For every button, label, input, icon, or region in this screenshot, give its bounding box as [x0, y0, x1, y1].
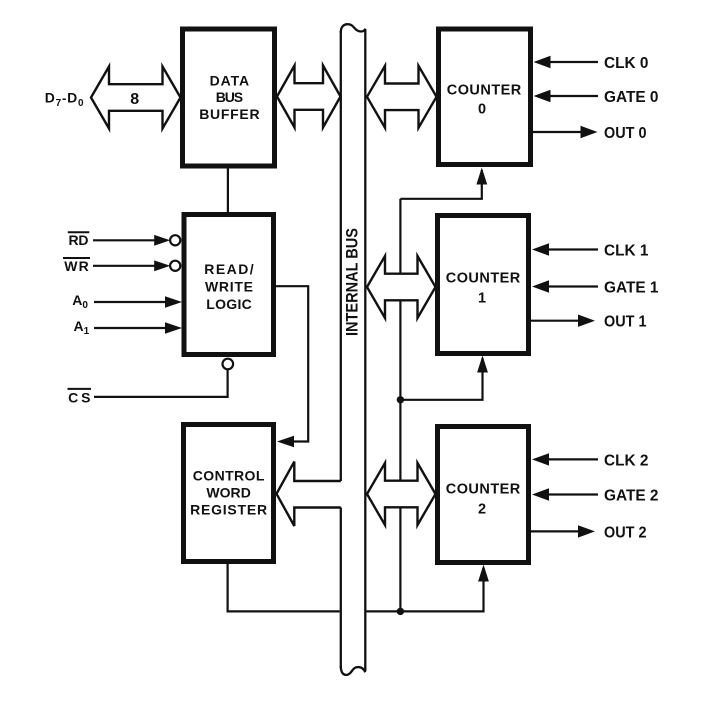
- block: COUNTER 0: [439, 29, 531, 165]
- svg-text:COUNTER: COUNTER: [446, 270, 521, 286]
- svg-text:D7-D0: D7-D0: [45, 90, 85, 109]
- wire: GATE 1 input line: [546, 285, 598, 287]
- svg-text:BUS: BUS: [216, 89, 243, 105]
- arrowhead: A0 into box: [165, 296, 182, 308]
- wire: branch to counter 0: [400, 170, 481, 199]
- arrowhead: GATE 0: [534, 90, 551, 102]
- wire: WR input line: [93, 265, 156, 267]
- arrowhead: WR into bubble: [154, 260, 170, 271]
- block: CONTROL WORD REGISTER: [184, 425, 274, 562]
- block: DATA BUS BUFFER: [183, 29, 275, 166]
- svg-text:0: 0: [478, 102, 486, 118]
- wire: CLK 0 input line: [548, 61, 598, 63]
- arrowhead: riser into counter 2 bottom: [478, 565, 489, 582]
- svg-text:DATA: DATA: [210, 73, 250, 89]
- arrowhead: OUT 1: [578, 315, 595, 327]
- arrowhead: R/W logic wire into control word register: [277, 436, 294, 448]
- svg-text:CLK 0: CLK 0: [604, 55, 648, 72]
- bubble: WR active-low input: [170, 261, 180, 271]
- svg-text:COUNTER: COUNTER: [446, 482, 521, 498]
- label: INTERNAL BUS (rotated): [343, 228, 362, 336]
- internal bus wavy bottom end: [341, 666, 366, 675]
- arrowhead: CLK 0: [534, 56, 551, 68]
- svg-text:CS: CS: [68, 389, 90, 405]
- wire: OUT 1 output line: [529, 320, 581, 322]
- svg-text:RD: RD: [69, 232, 89, 248]
- svg-text:OUT 2: OUT 2: [604, 524, 647, 541]
- internal bus wavy top end: [341, 24, 366, 33]
- wire: read/write logic to control word register: [274, 286, 308, 441]
- svg-text:WRITE: WRITE: [205, 278, 253, 294]
- wire: GATE 2 input line: [546, 493, 598, 495]
- wire: CLK 1 input line: [546, 248, 598, 250]
- svg-text:1: 1: [478, 291, 486, 307]
- svg-text:CONTROL: CONTROL: [193, 467, 265, 483]
- svg-text:CLK 1: CLK 1: [604, 243, 648, 260]
- svg-text:INTERNAL BUS: INTERNAL BUS: [343, 228, 362, 336]
- wire: RD input line: [93, 239, 156, 241]
- fat arrow: internal bus to counter 1 (bidirectional): [367, 256, 436, 318]
- wire: CLK 2 input line: [546, 458, 598, 460]
- bubble: CS active-low input at bottom of read/write logic: [223, 359, 234, 370]
- internal bus right edge: [364, 29, 366, 671]
- wire: CS input line up to bubble: [94, 370, 228, 397]
- svg-text:BUFFER: BUFFER: [199, 106, 259, 122]
- wire: A0 input line: [94, 301, 167, 303]
- svg-text:WORD: WORD: [206, 484, 251, 500]
- svg-text:GATE 2: GATE 2: [604, 488, 659, 505]
- block: COUNTER 1: [438, 216, 529, 354]
- wire: OUT 0 output line: [531, 131, 583, 133]
- fat arrow: internal bus into control word register (single head, opens into bus): [277, 462, 341, 526]
- wire: branch to counter 1: [400, 358, 482, 400]
- wire: data bus buffer to read/write logic: [227, 166, 229, 216]
- internal bus left edge (gap at control word register arrow): [340, 31, 342, 481]
- fat arrow: data bus buffer to internal bus (bidirectional): [277, 66, 341, 128]
- svg-text:OUT 1: OUT 1: [604, 314, 647, 331]
- arrowhead: GATE 1: [532, 280, 549, 292]
- svg-text:WR: WR: [64, 258, 89, 274]
- svg-text:OUT 0: OUT 0: [604, 125, 647, 142]
- fat arrow: internal bus to counter 0 (bidirectional): [367, 66, 437, 128]
- svg-text:READ/: READ/: [204, 261, 254, 277]
- arrowhead: OUT 2: [578, 525, 595, 537]
- wire: OUT 2 output line: [529, 530, 581, 532]
- svg-text:A1: A1: [74, 318, 90, 337]
- arrowhead: A1 into box: [165, 322, 182, 334]
- svg-text:CLK 2: CLK 2: [604, 452, 648, 469]
- arrowhead: CLK 1: [532, 243, 549, 255]
- svg-text:A0: A0: [72, 292, 88, 311]
- svg-text:GATE 0: GATE 0: [604, 89, 659, 106]
- arrowhead: OUT 0: [581, 126, 598, 138]
- junction node: riser meets counter 1 branch: [397, 396, 404, 403]
- svg-text:COUNTER: COUNTER: [447, 82, 522, 98]
- svg-text:LOGIC: LOGIC: [206, 296, 252, 312]
- arrowhead: riser into counter 1 bottom: [477, 356, 488, 373]
- svg-text:8: 8: [130, 91, 139, 108]
- svg-text:GATE 1: GATE 1: [604, 280, 659, 297]
- wire: GATE 0 input line: [548, 95, 598, 97]
- bubble: RD active-low input: [170, 235, 180, 245]
- internal bus body (hides crossing wires): [340, 24, 367, 675]
- wire: vertical control bus riser: [399, 199, 401, 612]
- svg-text:2: 2: [478, 501, 486, 517]
- arrowhead: riser into counter 0 bottom: [476, 168, 487, 185]
- junction node: riser meets control word register output: [397, 608, 404, 615]
- arrowhead: RD into bubble: [154, 235, 170, 246]
- arrowhead: CLK 2: [532, 453, 549, 465]
- fat arrow: internal bus to counter 2 (bidirectional): [367, 463, 436, 525]
- fat arrow: D7-D0 to data bus buffer (bidirectional, label 8): [91, 67, 181, 129]
- wire: A1 input line: [94, 327, 167, 329]
- arrowhead: GATE 2: [532, 488, 549, 500]
- wire: control word register output to counter 2: [228, 562, 484, 611]
- block: COUNTER 2: [438, 427, 529, 563]
- svg-text:REGISTER: REGISTER: [190, 502, 267, 518]
- block: READ/WRITE LOGIC: [184, 215, 274, 355]
